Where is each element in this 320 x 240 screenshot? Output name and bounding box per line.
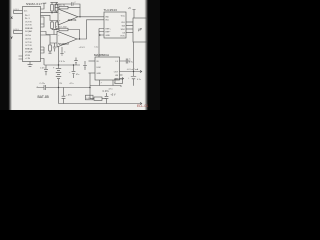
svg-text:OUT B: OUT B — [25, 39, 31, 41]
svg-text:SDI: SDI — [122, 25, 126, 27]
svg-text:+1.5 V: +1.5 V — [79, 47, 86, 49]
pin stub U6 left upper — [89, 60, 96, 62]
svg-text:CLK: CLK — [121, 22, 126, 24]
resistor R7 below U3 input — [49, 45, 52, 51]
+5V supply to microcontroller — [132, 10, 135, 19]
capacitor C7 electrolytic to rail — [62, 88, 66, 104]
wire U6 bottom pins — [100, 80, 114, 86]
pin stub U6 left lower — [89, 72, 96, 74]
svg-text:μP: μP — [138, 28, 142, 32]
svg-text:VCC: VCC — [121, 15, 126, 17]
resistor R6 — [94, 97, 102, 100]
page background — [0, 0, 160, 110]
input Y wire (-) — [14, 33, 23, 35]
feedback capacitor C1 of U2 — [55, 2, 80, 7]
svg-text:BAT-85: BAT-85 — [38, 95, 49, 99]
svg-text:+5 V: +5 V — [111, 94, 116, 97]
svg-text:OCT IN: OCT IN — [25, 42, 32, 44]
svg-text:AMP04: AMP04 — [68, 18, 77, 22]
svg-text:IN+ 2: IN+ 2 — [25, 15, 30, 17]
capacitor C2 below U3 to ground — [60, 47, 63, 55]
box low-battery comparator — [115, 79, 123, 83]
wire U1 to op-amp U3 non-inverting input — [41, 35, 58, 43]
svg-text:C 1u: C 1u — [94, 47, 98, 49]
connector Y bracket — [13, 31, 15, 34]
svg-text:4.7u: 4.7u — [109, 89, 113, 91]
svg-text:C 47u: C 47u — [40, 67, 45, 69]
wire bottom loop — [90, 86, 121, 88]
svg-text:C 4.7u: C 4.7u — [59, 61, 65, 63]
svg-text:SSM2017: SSM2017 — [59, 43, 70, 46]
capacitor C9 electrolytic — [72, 65, 76, 78]
decoupling capacitor under U1 to ground — [28, 62, 33, 67]
svg-text:R. 100k | 1Ω: R. 100k | 1Ω — [55, 4, 66, 6]
svg-text:R 2k | 1.5kΩ: R 2k | 1.5kΩ — [56, 27, 67, 29]
svg-text:4.5V: 4.5V — [86, 98, 91, 100]
capacitor C10 — [74, 58, 78, 66]
wire U1 to op-amp U3 inverting input — [41, 32, 58, 35]
capacitor C12 at U6 input — [83, 61, 87, 70]
capacitor C11 below U3 input — [53, 43, 56, 52]
svg-text:EOC: EOC — [121, 36, 126, 38]
capacitor C8 electrolytic — [105, 93, 109, 104]
junction dots — [51, 12, 134, 88]
svg-text:(+)(-): (+)(-) — [14, 29, 19, 31]
resistor R3 to ground — [56, 22, 59, 29]
wires ADC REF pins to regulator — [99, 29, 104, 58]
svg-text:(+)(-): (+)(-) — [14, 9, 19, 11]
supply rail wire — [44, 64, 80, 66]
capacitor C6 47u — [37, 85, 59, 90]
svg-text:VR IN: VR IN — [25, 55, 31, 57]
svg-text:47u: 47u — [76, 74, 79, 76]
right black border bar — [145, 0, 149, 110]
svg-text:DOQAR: DOQAR — [25, 30, 33, 33]
wire U6 OUT +5V — [120, 70, 142, 72]
svg-text:GND: GND — [97, 73, 102, 75]
pin stub U1 top right to +V — [41, 3, 46, 9]
svg-text:REF−: REF− — [106, 31, 112, 33]
pin stubs U1 lower right — [41, 47, 45, 53]
svg-text:SMBCAL: SMBCAL — [25, 48, 33, 51]
svg-text:LBI: LBI — [115, 75, 118, 77]
svg-text:4.7u: 4.7u — [70, 83, 74, 85]
SPI wire SDO — [126, 28, 133, 30]
svg-text:IN− 3: IN− 3 — [25, 18, 30, 20]
wire U2 output to ADC IN0 — [78, 16, 104, 18]
IC U1 input chip box — [23, 7, 41, 62]
svg-text:C 47u: C 47u — [40, 83, 45, 85]
feedback resistor R4 of U2 — [59, 6, 68, 9]
ADC U4 TLC2543 box — [104, 12, 126, 38]
SPI wire CLK — [126, 21, 133, 23]
svg-text:TLC2543: TLC2543 — [104, 8, 118, 12]
svg-text:LBO: LBO — [114, 78, 118, 80]
feedback resistor R5 of U3 — [59, 28, 68, 31]
capacitor C5 47u — [44, 65, 48, 75]
resistor R2 to ground — [51, 22, 54, 29]
left black border bar — [0, 0, 9, 110]
battery BT1 — [58, 47, 60, 68]
svg-text:C 47u: C 47u — [103, 91, 110, 93]
mid rail wire — [59, 87, 91, 89]
wire +5V to microcontroller — [133, 42, 135, 72]
junction REF node — [99, 34, 101, 36]
svg-text:MAX866CA: MAX866CA — [94, 53, 109, 57]
wire U1 to op-amp U2 inverting input — [41, 12, 59, 14]
svg-text:DOQAR: DOQAR — [25, 51, 33, 54]
input Y wire (+) — [14, 30, 23, 32]
svg-text:+ 47u: + 47u — [66, 94, 72, 96]
box 4.5V cell — [86, 95, 94, 100]
wire R6 to C8 — [102, 98, 107, 100]
svg-text:GND: GND — [106, 35, 111, 37]
resistor R1 pull-up to +V — [51, 5, 54, 12]
svg-text:OUT A: OUT A — [25, 34, 31, 37]
microcontroller U5 box — [133, 18, 147, 42]
connector X bracket — [13, 11, 15, 14]
wire U1 bottom pin to supply rail — [41, 59, 45, 66]
svg-text:+C IN: +C IN — [25, 58, 31, 60]
pin stub LBO with arrow — [120, 77, 124, 79]
op-amp U2 AMP04 — [58, 9, 78, 25]
svg-text:OCT IN: OCT IN — [25, 22, 32, 24]
SPI wire CS — [126, 32, 133, 34]
pin stubs U1 left bottom — [19, 56, 23, 59]
svg-text:OCT IN: OCT IN — [25, 45, 32, 47]
wire U3 output to ADC IN1 — [77, 20, 104, 39]
svg-text:fw 1: fw 1 — [24, 11, 27, 13]
SPI wire SDI — [126, 25, 133, 27]
svg-text:SSM2-017: SSM2-017 — [26, 2, 42, 6]
svg-text:REF+: REF+ — [106, 28, 112, 30]
pin stubs U1 right middle — [41, 17, 45, 27]
capacitor C3 at LX pin — [120, 59, 131, 64]
svg-text:4.7u: 4.7u — [129, 62, 133, 64]
capacitor C4 electrolytic on +5V — [131, 72, 136, 86]
svg-text:OCT IN: OCT IN — [25, 25, 32, 27]
wire node 4.5V branch — [90, 73, 94, 99]
regulator U6 MAX866 box — [95, 57, 120, 80]
svg-text:+5 V at 7 mA: +5 V at 7 mA — [127, 68, 139, 71]
svg-text:ELL-01: ELL-01 — [137, 104, 148, 108]
resistor R1b pull-up to +V — [55, 5, 58, 12]
svg-text:SDO: SDO — [121, 29, 126, 31]
input X wire (+) — [14, 10, 23, 12]
input X wire (-) — [14, 13, 23, 15]
svg-text:ILIM: ILIM — [97, 67, 101, 69]
ground rail wire bottom with arrow — [59, 102, 142, 104]
svg-text:SMBCAL: SMBCAL — [25, 27, 33, 30]
op-amp U3 SSM2017 — [57, 31, 77, 47]
pin stub LBI — [120, 74, 123, 76]
svg-text:4.7u: 4.7u — [137, 79, 141, 81]
wire U1 to op-amp U2 non-inverting input — [41, 15, 59, 20]
